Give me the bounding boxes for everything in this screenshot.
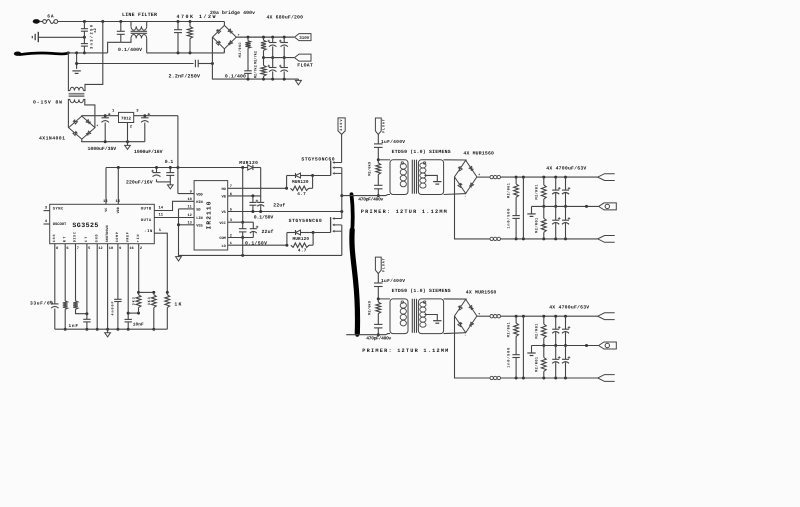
- connector output plus: [598, 174, 615, 181]
- svg-text:M2/7k2: M2/7k2: [253, 51, 258, 64]
- capacitor Y-cap upper 3n3/250: [81, 22, 88, 38]
- svg-text:4.7: 4.7: [297, 192, 306, 197]
- pin 9 COMP: [115, 232, 121, 251]
- capacitor 4700uF/63V top 1: [552, 177, 560, 208]
- svg-text:4X1N4001: 4X1N4001: [39, 136, 65, 142]
- svg-text:M2/861: M2/861: [506, 322, 511, 337]
- capacitor 1nF CT: [83, 319, 90, 330]
- wire snubber return: [522, 177, 524, 239]
- wire CSS down: [54, 244, 56, 304]
- svg-text:13: 13: [103, 199, 108, 204]
- capacitor 4700uF/63V top 2: [562, 177, 570, 208]
- svg-text:10nF: 10nF: [133, 323, 144, 328]
- pin 10 HIN: [187, 197, 202, 205]
- resistor output snubber: [514, 316, 519, 355]
- wire GND pin down: [96, 244, 99, 331]
- capacitor 4n00 comp: [114, 299, 121, 330]
- pin labels 7812: [112, 108, 139, 129]
- svg-text:COMP: COMP: [115, 232, 120, 242]
- ground arrow decoupling: [168, 185, 174, 189]
- capacitor 0.1/400V second: [174, 22, 182, 53]
- capacitor 33uF/63 soft start: [49, 301, 58, 330]
- wire SG3525 ground bus: [55, 328, 168, 330]
- capacitor 4700uF/63V bottom 1: [552, 206, 560, 239]
- wire VCC from +12: [241, 168, 244, 224]
- diode MUR120 bootstrap: [248, 165, 261, 196]
- wire switch to primary: [342, 195, 390, 196]
- marker stroke switch node to lower primary (hand annotation): [352, 194, 358, 334]
- svg-text:CT: CT: [84, 237, 89, 243]
- wire LO: [228, 244, 289, 247]
- wire COM stub: [228, 237, 254, 239]
- transistor Q2 STGY50NC60 lower: [331, 217, 342, 255]
- capacitor 0.1/400 bank: [244, 71, 252, 79]
- svg-text:7812: 7812: [121, 117, 131, 122]
- bridge rectifier 4X MUR1560: [455, 160, 477, 193]
- regulator U3 7812: [119, 112, 134, 122]
- capacitor 4700uF/63V bottom 2: [562, 346, 570, 379]
- svg-text:1K: 1K: [174, 302, 181, 308]
- svg-text:M2/861: M2/861: [506, 183, 511, 198]
- capacitor 680uF/200 A top: [268, 37, 277, 59]
- ground bars output mid: [527, 206, 535, 216]
- op-amp U1 SG3525 box: [50, 204, 155, 243]
- ground bars at input: [72, 70, 80, 72]
- wire output plus rail: [501, 315, 598, 318]
- svg-text:3K3: 3K3: [132, 297, 137, 305]
- resistor 4.7 upper gate: [291, 176, 313, 191]
- pin 11 OUTA: [141, 213, 194, 223]
- transformer T2 core: [412, 299, 416, 333]
- svg-text:OSCOUT: OSCOUT: [53, 222, 67, 227]
- wire SHUTDOWN down: [106, 244, 109, 331]
- net tag FLOAT: [295, 54, 312, 61]
- svg-text:IR2110: IR2110: [205, 201, 212, 229]
- wire 7812 gnd pin: [127, 123, 129, 142]
- svg-text:DISC: DISC: [73, 232, 78, 242]
- svg-text:4X MUR1560: 4X MUR1560: [463, 150, 494, 156]
- capacitor 4700uF/63V bottom 1: [552, 346, 560, 379]
- capacitor 220uF/16V: [151, 168, 170, 182]
- transistor Q1 STGY50NC60 upper: [331, 134, 342, 175]
- svg-text:9: 9: [119, 246, 121, 251]
- net tag 310V vertical: [338, 118, 345, 134]
- svg-text:SG3525: SG3525: [72, 222, 98, 229]
- transformer T2 secondary: [418, 299, 443, 334]
- wire snubber return: [522, 316, 524, 378]
- resistor bleeder M2: [245, 37, 250, 71]
- connector output minus: [598, 375, 615, 382]
- svg-text:470pF/400v: 470pF/400v: [358, 197, 383, 203]
- diode MUR120 lower gate: [287, 230, 315, 245]
- svg-text:LIN: LIN: [196, 216, 202, 221]
- capacitor output snubber: [512, 216, 519, 239]
- resistor snubber M2/6k9: [376, 299, 381, 325]
- resistor 470K 1/2W: [187, 22, 192, 53]
- pin 3 VCC: [219, 218, 232, 226]
- pin 4 OSCOUT: [44, 219, 68, 227]
- wire COMP down: [117, 244, 119, 300]
- terminal J2 neutral: [14, 52, 21, 56]
- pin 13 VSS: [187, 221, 203, 229]
- capacitor Y-cap lower 3n3/250: [81, 37, 88, 54]
- capacitor 470pF/400v snubber: [374, 324, 382, 336]
- svg-text:VDD: VDD: [196, 192, 203, 197]
- capacitor 22uf vcc: [250, 222, 259, 237]
- ground arrow logic: [176, 255, 182, 261]
- svg-text:16: 16: [129, 246, 133, 251]
- capacitor 4700uF/63V bottom 2: [562, 206, 570, 239]
- svg-text:5: 5: [88, 246, 90, 251]
- svg-text:OUTA: OUTA: [141, 218, 152, 223]
- pin 2 COM: [219, 233, 232, 241]
- pin 12 LIN: [187, 213, 202, 221]
- svg-text:VCC: VCC: [219, 221, 226, 226]
- pin 11 SD: [187, 205, 201, 213]
- wire output mid rail: [532, 344, 599, 347]
- svg-text:6A: 6A: [47, 13, 54, 19]
- wire 2.2nF to bridge minus: [198, 62, 214, 65]
- svg-text:HIN: HIN: [196, 200, 202, 205]
- svg-text:+: +: [96, 123, 98, 128]
- capacitor 4700uF/63V top 1: [552, 316, 560, 347]
- wire VCC stub: [228, 221, 254, 223]
- svg-text:10: 10: [187, 197, 191, 202]
- svg-text:1uF/400V: 1uF/400V: [381, 278, 405, 284]
- pin 9 VDD: [190, 189, 204, 197]
- wire VREF down: [127, 244, 130, 320]
- wire secondary to bridge: [444, 299, 467, 334]
- resistor snubber M2/6k9: [376, 160, 381, 186]
- svg-text:-IN: -IN: [144, 229, 153, 234]
- svg-text:VSS: VSS: [196, 224, 203, 229]
- transformer T1 aux 0-15V 8W: [68, 87, 95, 107]
- capacitor 1000uF/16V: [141, 113, 150, 142]
- svg-text:4X MUR1560: 4X MUR1560: [466, 290, 497, 296]
- svg-text:2.2nF/250V: 2.2nF/250V: [169, 73, 201, 79]
- svg-text:M2/7k2: M2/7k2: [253, 65, 258, 78]
- wire VDD to +12: [178, 168, 194, 194]
- wire aux secondary to bridge: [68, 102, 95, 128]
- capacitor 0.1/400V line filter: [117, 22, 125, 43]
- resistor DISC: [73, 244, 88, 316]
- resistor divider R lower: [151, 292, 156, 330]
- resistor 4.7 lower gate: [291, 233, 313, 248]
- wire CT down: [86, 244, 88, 320]
- wire switch node: [340, 173, 343, 218]
- svg-text:4n00F: 4n00F: [111, 302, 116, 316]
- capacitor 1uF/400V dc block: [374, 135, 383, 162]
- svg-text:x2: x2: [93, 28, 98, 33]
- svg-text:M2/R01: M2/R01: [535, 185, 540, 200]
- svg-text:MUR120: MUR120: [293, 237, 310, 242]
- wire secondary to bridge: [444, 160, 467, 195]
- wire to lower gate: [313, 232, 331, 234]
- svg-text:12: 12: [98, 246, 102, 251]
- net tag 310V: [295, 34, 312, 41]
- svg-text:33uF/63: 33uF/63: [30, 301, 53, 307]
- svg-text:220uF/16V: 220uF/16V: [126, 179, 153, 185]
- pin 8 CSS: [52, 234, 58, 250]
- inductor output minus: [490, 237, 493, 240]
- pin 3 SYNC: [44, 206, 65, 212]
- resistor RT timing: [63, 244, 68, 331]
- svg-text:4X 680uF/200: 4X 680uF/200: [267, 15, 304, 21]
- wire 7812 output: [134, 114, 178, 117]
- svg-text:ETD59 (1.0) SIEMENS: ETD59 (1.0) SIEMENS: [392, 288, 451, 294]
- capacitor 10nF vref: [125, 319, 132, 330]
- wire aux minus rail: [82, 139, 145, 143]
- svg-text:MUR120: MUR120: [239, 160, 258, 166]
- svg-text:20a bridge 400v: 20a bridge 400v: [210, 10, 255, 16]
- capacitor 22uf bootstrap: [256, 196, 265, 212]
- svg-text:M2/R01: M2/R01: [535, 357, 540, 372]
- svg-text:0.1: 0.1: [165, 159, 174, 165]
- svg-text:310V: 310V: [299, 36, 309, 41]
- op-amp U2 IR2110 box: [194, 181, 228, 250]
- svg-text:4X 4700uF/63V: 4X 4700uF/63V: [549, 305, 589, 311]
- svg-text:1n0/500: 1n0/500: [506, 348, 511, 368]
- svg-text:OUTB: OUTB: [141, 207, 152, 212]
- capacitor 1000uF/35V: [101, 113, 110, 142]
- svg-text:1n0/500: 1n0/500: [506, 209, 511, 229]
- svg-text:SHUTDOWN: SHUTDOWN: [105, 225, 110, 242]
- wire output plus rail: [501, 176, 598, 179]
- wire vref to divider: [128, 312, 140, 315]
- resistor output bleeder lower: [541, 346, 546, 379]
- svg-text:-: -: [464, 195, 466, 199]
- svg-text:M2/96C: M2/96C: [238, 41, 243, 57]
- svg-text:0.1/50V: 0.1/50V: [254, 214, 274, 220]
- wire SD VSS to ground: [177, 209, 194, 256]
- earth symbol input: [32, 32, 38, 42]
- svg-text:14: 14: [159, 206, 164, 211]
- wire +IN down: [137, 244, 140, 294]
- svg-text:RT: RT: [62, 237, 67, 243]
- capacitor 0.1/50V bootstrap: [249, 196, 256, 212]
- capacitor 680uF/200 A bottom: [268, 58, 277, 80]
- wire +12V rail: [106, 166, 248, 169]
- inductor L1 common-mode choke: [121, 22, 147, 53]
- diode MUR120 upper gate: [287, 173, 315, 188]
- svg-text:22uf: 22uf: [273, 202, 285, 208]
- wire output minus rail: [501, 377, 598, 380]
- pin 6 RT: [62, 237, 68, 251]
- fuse F1 6A: [43, 20, 58, 24]
- svg-text:11: 11: [159, 213, 164, 218]
- resistor output bleeder upper: [541, 177, 546, 208]
- svg-text:2: 2: [140, 246, 142, 251]
- svg-text:0-15V 8W: 0-15V 8W: [33, 100, 62, 106]
- wire bridge minus down: [212, 37, 298, 81]
- wire FLOAT rail: [264, 57, 295, 59]
- wire to upper gate: [313, 175, 331, 177]
- svg-text:GND: GND: [94, 234, 99, 242]
- capacitor 680uF/200 B bottom: [279, 58, 288, 80]
- bridge rectifier 4X1N4001: [69, 116, 95, 139]
- transformer T2 core: [412, 160, 416, 194]
- capacitor 2.2nF/250V: [194, 60, 196, 68]
- svg-text:22uf: 22uf: [262, 229, 274, 235]
- wire center tap: [425, 175, 438, 181]
- bridge rectifier 4X MUR1560: [455, 299, 477, 332]
- wire 310V rail: [236, 36, 294, 39]
- capacitor 680uF/200 B top: [279, 37, 288, 59]
- wire 7812 out down to rail: [177, 116, 179, 168]
- marker stroke neutral (hand annotation): [20, 53, 68, 55]
- net tag FLOAT vertical: [375, 257, 381, 274]
- svg-text:VDD: VDD: [116, 207, 121, 213]
- svg-text:STGY50NC60: STGY50NC60: [301, 156, 334, 162]
- wire center tap: [425, 315, 438, 321]
- connector output minus: [598, 236, 615, 243]
- capacitor 1uF/400V dc block: [374, 274, 383, 301]
- svg-text:M2/6k9: M2/6k9: [368, 301, 373, 315]
- svg-text:FLOAT: FLOAT: [382, 258, 387, 272]
- net tag FLOAT vertical: [375, 118, 381, 135]
- svg-text:VC: VC: [104, 208, 109, 212]
- svg-text:0.1/400V: 0.1/400V: [118, 47, 142, 53]
- wire output mid rail: [532, 205, 599, 208]
- svg-text:FLOAT: FLOAT: [382, 119, 387, 133]
- svg-text:470pF/400v: 470pF/400v: [366, 336, 391, 342]
- inductor output plus: [477, 175, 501, 178]
- svg-text:7: 7: [77, 246, 79, 251]
- ground arrow aux: [125, 142, 131, 150]
- svg-text:3K3: 3K3: [147, 297, 152, 305]
- wire neutral to bridge AC2: [223, 49, 225, 53]
- pin 15 VDD: [116, 168, 122, 214]
- wire live rail top: [58, 20, 225, 23]
- pin 12 GND: [94, 234, 102, 250]
- capacitor 0.1/50V vcc: [239, 222, 247, 255]
- pin 5 CT: [84, 237, 90, 251]
- wire bridge minus down: [455, 316, 490, 378]
- connector output mid: [599, 342, 617, 349]
- svg-text:0.1/400: 0.1/400: [225, 73, 246, 79]
- labels divider rotated: [253, 51, 258, 78]
- wire filtered neutral: [147, 51, 225, 54]
- wire divider jumper: [139, 291, 156, 294]
- pin 2 +IN: [136, 234, 142, 250]
- svg-text:ETD59 (1.0) SIEMENS: ETD59 (1.0) SIEMENS: [392, 149, 451, 155]
- transformer T2 ETD59 primary: [378, 299, 408, 334]
- svg-text:VREF: VREF: [125, 232, 130, 242]
- svg-text:10: 10: [109, 246, 113, 251]
- resistor divider upper M2/7k2: [261, 37, 266, 59]
- svg-text:M2/R01: M2/R01: [535, 324, 540, 339]
- pin 7 DISC: [73, 232, 79, 251]
- svg-text:6: 6: [66, 246, 68, 251]
- pin 10 SHUTDOWN: [105, 225, 113, 251]
- resistor output snubber: [514, 177, 519, 216]
- svg-text:LINE FILTER: LINE FILTER: [122, 12, 157, 18]
- svg-text:1nF: 1nF: [69, 324, 79, 329]
- svg-text:1uF/400V: 1uF/400V: [381, 139, 405, 145]
- resistor output bleeder lower: [541, 206, 546, 239]
- transformer T2 secondary: [418, 160, 443, 195]
- wire output minus rail: [501, 237, 598, 240]
- wire logic ground bus: [179, 254, 342, 257]
- svg-text:4X 4700uF/63V: 4X 4700uF/63V: [546, 165, 586, 171]
- ground arrow shutdown: [105, 329, 111, 337]
- connector output plus: [598, 313, 615, 320]
- svg-text:SYNC: SYNC: [53, 207, 64, 212]
- svg-text:CSS: CSS: [52, 234, 57, 242]
- inductor output minus: [490, 376, 493, 379]
- svg-text:M2/R01: M2/R01: [535, 218, 540, 233]
- inductor output plus: [477, 315, 501, 318]
- pin 1 LO: [221, 241, 231, 249]
- wire VB: [228, 194, 261, 197]
- resistor 1K feedback: [165, 291, 170, 329]
- svg-text:1000uF/35V: 1000uF/35V: [88, 146, 117, 152]
- capacitor 4700uF/63V top 2: [562, 316, 570, 347]
- ground bars center tap: [433, 181, 441, 183]
- capacitor output snubber: [512, 355, 519, 378]
- resistor divider R upper: [136, 292, 141, 313]
- svg-text:MUR120: MUR120: [292, 180, 309, 185]
- svg-text:+IN: +IN: [136, 234, 141, 242]
- ground arrow main bank: [295, 79, 301, 85]
- svg-text:FLOAT: FLOAT: [297, 63, 313, 69]
- wire HO: [228, 187, 288, 190]
- terminal J1 live: [33, 19, 40, 24]
- wire earth to Y-cap midpoint: [39, 36, 86, 39]
- pin 5 VS: [221, 207, 231, 215]
- svg-text:4.7: 4.7: [298, 249, 307, 254]
- wire live to bridge AC1: [223, 22, 225, 26]
- svg-text:310V: 310V: [339, 118, 344, 130]
- svg-text:COM: COM: [219, 236, 225, 241]
- pin 13 VC: [103, 168, 109, 212]
- capacitor 470pF/400v snubber: [374, 185, 382, 197]
- svg-text:3n3/250: 3n3/250: [89, 24, 94, 49]
- pin 16 VREF: [125, 232, 133, 251]
- svg-text:8: 8: [56, 246, 58, 251]
- pin 6 VB: [221, 192, 231, 200]
- wire neutral rail: [67, 42, 121, 54]
- wire bridge minus down: [455, 177, 490, 239]
- pin 7 HO: [221, 184, 231, 192]
- wire VS to switch node: [228, 210, 344, 213]
- wire aux plus rail: [82, 114, 119, 117]
- svg-text:15: 15: [116, 199, 121, 204]
- svg-text:-: -: [464, 334, 466, 338]
- resistor output bleeder upper: [541, 316, 546, 347]
- capacitor 0.1 decoupling: [166, 168, 174, 185]
- wire earth/ground tie: [75, 53, 194, 69]
- connector output mid: [599, 203, 617, 210]
- bridge rectifier 20a 400v: [213, 25, 240, 54]
- svg-text:12: 12: [187, 213, 191, 218]
- wire terminal to fuse: [40, 21, 43, 23]
- svg-text:1000uF/16V: 1000uF/16V: [134, 149, 163, 155]
- wire switch to primary: [346, 334, 390, 335]
- wire live down to aux transformer: [85, 22, 103, 89]
- transformer T2 ETD59 primary: [378, 160, 408, 195]
- resistor divider lower M2/7k2: [261, 58, 266, 80]
- ground bars output mid: [527, 346, 535, 356]
- svg-text:STGY50NC60: STGY50NC60: [289, 218, 322, 224]
- svg-text:M2/6k9: M2/6k9: [368, 162, 373, 176]
- ground bars center tap: [433, 320, 441, 322]
- wire neutral down to aux transformer: [67, 53, 69, 88]
- pin 14 OUTB: [141, 201, 194, 211]
- label 3n3/250 x2: [89, 24, 98, 49]
- pin 1 -IN: [144, 228, 167, 292]
